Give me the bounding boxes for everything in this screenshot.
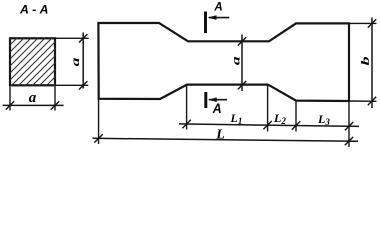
extension line b bottom [350, 100, 377, 102]
section cut line top [204, 12, 207, 34]
dimension line b (specimen end height) [371, 18, 373, 109]
specimen outline (dog-bone) [98, 23, 349, 101]
tick square height bottom [79, 81, 87, 89]
tick L right [345, 137, 353, 145]
tick L3 right [345, 122, 353, 130]
tick neck bottom [238, 81, 246, 89]
section arrow top [208, 15, 230, 20]
extension line neck left corner [186, 85, 188, 130]
tick b bottom [368, 97, 376, 105]
section view square outline [10, 38, 55, 85]
tick square width right [51, 101, 59, 109]
svg-text:А: А [213, 1, 222, 13]
svg-text:L: L [215, 128, 225, 143]
section hatching [0, 35, 104, 87]
extension line specimen right end [348, 102, 350, 148]
tick b top [368, 19, 376, 27]
dimension line a (square height) [82, 33, 84, 89]
dimension line L (overall length) [93, 138, 359, 141]
extension line square bottom right [56, 84, 88, 86]
dimension line L1 L2 L3 [179, 124, 359, 127]
tick L2/L3 [292, 121, 300, 129]
extension line b top [350, 22, 377, 24]
svg-text:b: b [359, 56, 372, 66]
dimension line a (square width) [3, 104, 64, 106]
svg-text:L3: L3 [317, 112, 330, 127]
tick neck top [238, 37, 246, 45]
extension line specimen left end [98, 100, 100, 145]
extension line square top right [56, 37, 89, 39]
svg-text:a: a [29, 90, 37, 106]
svg-text:А: А [212, 100, 222, 116]
svg-text:L2: L2 [273, 111, 286, 126]
tick square width left [6, 101, 14, 109]
svg-text:А - А: А - А [19, 2, 48, 16]
section arrow bottom [208, 97, 227, 102]
tick square height top [79, 34, 87, 42]
extension line neck right corner [267, 85, 269, 132]
extension line square bottom right corner [54, 87, 56, 111]
svg-text:a: a [69, 57, 82, 66]
tick L1 left [182, 120, 190, 128]
tick L1/L2 [263, 121, 271, 129]
svg-text:L1: L1 [230, 111, 243, 126]
dimension line a (specimen neck height) [241, 35, 243, 92]
section cut line bottom [204, 92, 207, 108]
tick L left [94, 134, 102, 142]
extension line square bottom left corner [9, 87, 11, 111]
svg-text:a: a [230, 56, 243, 65]
extension line right shoulder [295, 101, 297, 132]
